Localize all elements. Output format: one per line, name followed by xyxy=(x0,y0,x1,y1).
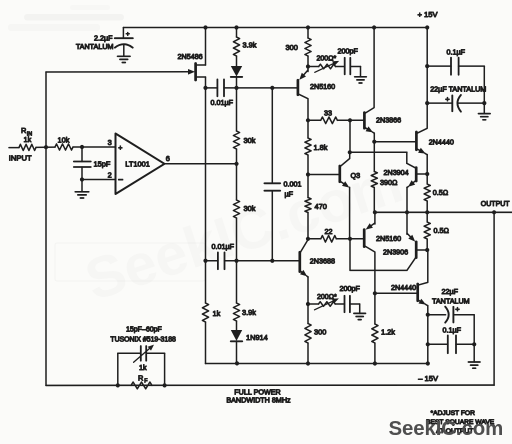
svg-text:22: 22 xyxy=(325,227,333,236)
svg-text:*ADJUST FOR: *ADJUST FOR xyxy=(431,410,476,417)
svg-text:15pF–60pF: 15pF–60pF xyxy=(126,326,162,333)
svg-text:200pF: 200pF xyxy=(340,284,361,293)
svg-text:BANDWIDTH 8MHz: BANDWIDTH 8MHz xyxy=(226,396,291,405)
svg-text:+: + xyxy=(126,31,130,38)
svg-text:LT1001: LT1001 xyxy=(125,160,150,169)
svg-text:3: 3 xyxy=(108,138,112,147)
svg-text:TANTALUM: TANTALUM xyxy=(432,297,470,306)
svg-text:SeekIC.com: SeekIC.com xyxy=(389,418,504,440)
svg-text:2N4440: 2N4440 xyxy=(391,283,416,292)
svg-text:0.5Ω: 0.5Ω xyxy=(434,226,450,235)
svg-text:0.01µF: 0.01µF xyxy=(212,242,235,251)
svg-text:2N5160: 2N5160 xyxy=(310,82,335,91)
svg-text:2N4440: 2N4440 xyxy=(429,138,454,147)
svg-text:2: 2 xyxy=(108,170,112,179)
svg-text:3.9k: 3.9k xyxy=(243,41,257,50)
svg-text:Q3: Q3 xyxy=(351,171,361,180)
svg-text:200Ω*: 200Ω* xyxy=(317,294,337,301)
svg-text:30k: 30k xyxy=(244,136,256,145)
svg-text:22µF: 22µF xyxy=(442,287,459,296)
svg-text:0.1µF: 0.1µF xyxy=(447,48,466,57)
svg-text:30k: 30k xyxy=(244,204,256,213)
svg-text:1.8k: 1.8k xyxy=(314,143,328,152)
svg-text:2N5160: 2N5160 xyxy=(376,234,401,243)
svg-text:µF: µF xyxy=(285,189,294,198)
svg-text:2N3866: 2N3866 xyxy=(376,115,401,124)
svg-text:−: − xyxy=(118,175,123,185)
svg-text:+: + xyxy=(445,95,450,104)
svg-text:1N914: 1N914 xyxy=(246,333,268,342)
svg-text:0.001: 0.001 xyxy=(284,179,302,188)
svg-text:1k: 1k xyxy=(24,135,32,144)
svg-text:OUTPUT: OUTPUT xyxy=(481,201,511,208)
svg-text:300: 300 xyxy=(286,43,298,52)
svg-text:2N3906: 2N3906 xyxy=(383,247,408,256)
svg-text:– 15V: – 15V xyxy=(418,374,439,383)
svg-text:0.5Ω: 0.5Ω xyxy=(433,188,449,197)
svg-text:3.9k: 3.9k xyxy=(242,308,256,317)
svg-text:0.1µF: 0.1µF xyxy=(443,325,462,334)
svg-text:0.01µF: 0.01µF xyxy=(211,98,234,107)
svg-text:+ 15V: + 15V xyxy=(418,10,439,19)
svg-text:390Ω: 390Ω xyxy=(380,178,398,187)
svg-text:200pF: 200pF xyxy=(338,47,359,56)
svg-text:6: 6 xyxy=(166,154,170,163)
svg-text:+: + xyxy=(118,143,122,152)
svg-text:TANTALUM: TANTALUM xyxy=(76,42,114,51)
svg-text:470: 470 xyxy=(315,202,327,211)
svg-text:2N3688: 2N3688 xyxy=(310,257,335,266)
svg-text:+: + xyxy=(455,304,460,313)
svg-text:2N3904: 2N3904 xyxy=(384,168,409,177)
svg-text:1.2k: 1.2k xyxy=(381,327,395,336)
svg-text:33: 33 xyxy=(324,109,332,118)
svg-text:INPUT: INPUT xyxy=(9,154,32,163)
svg-text:2N5486: 2N5486 xyxy=(178,52,203,61)
svg-text:200Ω*: 200Ω* xyxy=(317,56,337,63)
svg-text:R: R xyxy=(21,126,26,135)
svg-text:1k: 1k xyxy=(139,363,147,372)
svg-text:10k: 10k xyxy=(58,136,70,145)
svg-text:300: 300 xyxy=(314,328,326,337)
svg-text:22µF TANTALUM: 22µF TANTALUM xyxy=(430,84,486,93)
svg-text:15pF: 15pF xyxy=(94,160,111,169)
svg-text:R: R xyxy=(138,374,143,383)
svg-text:TUSONIX #519-3188: TUSONIX #519-3188 xyxy=(110,336,176,343)
svg-text:1k: 1k xyxy=(213,309,221,318)
